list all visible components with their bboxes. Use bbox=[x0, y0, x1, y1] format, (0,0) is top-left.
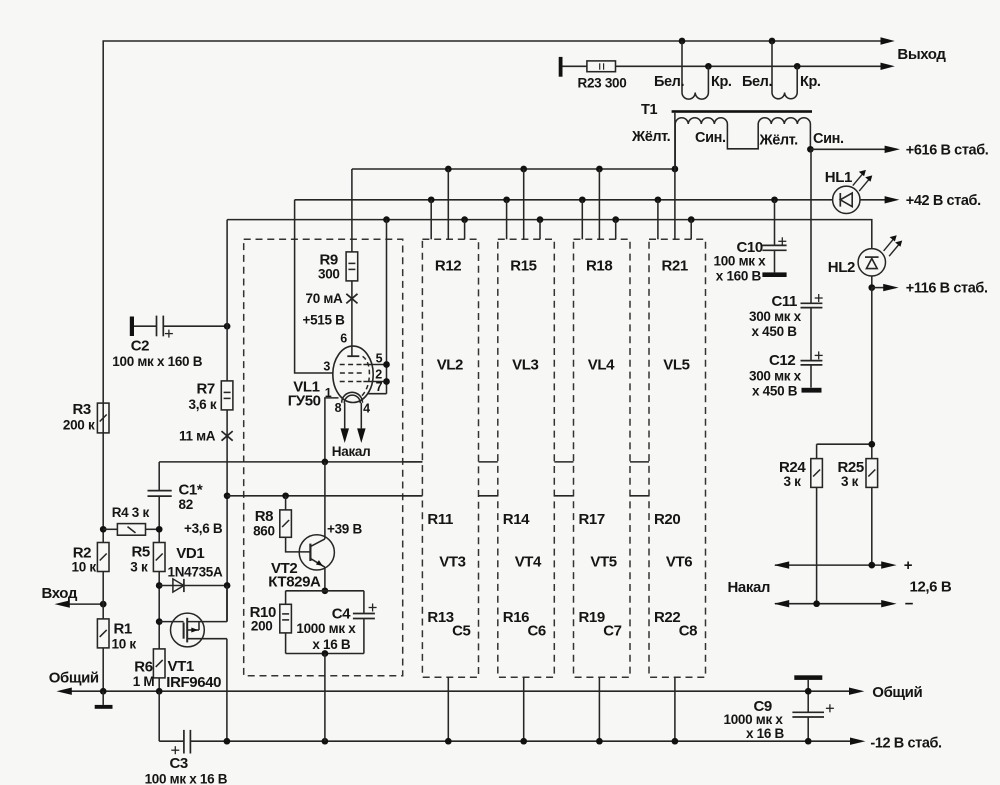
svg-text:C1*: C1* bbox=[179, 482, 203, 499]
svg-text:R19: R19 bbox=[579, 609, 605, 626]
arrow filament plus right bbox=[881, 561, 896, 568]
svg-text:3,6 к: 3,6 к bbox=[189, 397, 217, 412]
wire R24 R25 top connector bbox=[817, 444, 872, 458]
node minus12 col3 bbox=[520, 738, 527, 745]
svg-text:70 мА: 70 мА bbox=[306, 291, 344, 306]
wire col3 bottom drop bbox=[523, 677, 525, 741]
wire heater line module1 bbox=[159, 461, 422, 463]
arrow +42 bbox=[885, 196, 900, 203]
svg-text:R4 3 к: R4 3 к bbox=[112, 505, 150, 520]
tube VL1 envelope bbox=[333, 346, 373, 402]
node line C col3 bbox=[537, 216, 544, 223]
wire heater stub gap4 bbox=[630, 461, 649, 463]
wire R4 line bbox=[103, 528, 159, 530]
svg-text:+515 В: +515 В bbox=[303, 312, 346, 327]
svg-text:R3: R3 bbox=[73, 401, 91, 418]
capacitor C11 bbox=[801, 149, 823, 360]
svg-text:Общий: Общий bbox=[872, 684, 922, 701]
wire line B +42 bus bbox=[295, 199, 885, 201]
node line A col2 bbox=[445, 166, 452, 173]
svg-text:R7: R7 bbox=[197, 381, 215, 398]
svg-text:x 160 В: x 160 В bbox=[716, 268, 762, 283]
wire R23 line bbox=[563, 65, 882, 67]
C10 bottom bar bbox=[762, 272, 786, 277]
svg-text:R17: R17 bbox=[579, 511, 605, 528]
svg-text:C7: C7 bbox=[603, 623, 621, 640]
node line C col2 bbox=[461, 216, 468, 223]
svg-text:Кр.: Кр. bbox=[800, 74, 821, 90]
C10 plus sign bbox=[778, 237, 786, 245]
wire top output bus bbox=[103, 41, 881, 433]
wire col3 drop B bbox=[506, 200, 508, 240]
node line C pin5 bbox=[383, 216, 390, 223]
dashed module box 3 bbox=[498, 239, 555, 677]
svg-text:КТ829А: КТ829А bbox=[268, 573, 321, 590]
svg-text:x 16 В: x 16 В bbox=[312, 637, 351, 652]
svg-text:VT3: VT3 bbox=[439, 554, 465, 571]
svg-text:R14: R14 bbox=[503, 511, 530, 528]
node pin5 bbox=[383, 361, 390, 368]
svg-text:Жёлт.: Жёлт. bbox=[631, 129, 671, 145]
resistor R7 bbox=[221, 381, 233, 410]
capacitor C9 bbox=[792, 675, 824, 741]
node R4 left bbox=[100, 526, 107, 533]
node line B C10 bbox=[771, 196, 778, 203]
svg-text:Накал: Накал bbox=[332, 444, 371, 459]
svg-text:1000 мк x: 1000 мк x bbox=[724, 712, 784, 727]
svg-text:6: 6 bbox=[340, 332, 347, 346]
VL1 beam plate dashed arc bbox=[361, 356, 369, 396]
node +116 bbox=[868, 284, 875, 291]
arrow Общий right bbox=[849, 688, 864, 695]
capacitor C4 bbox=[353, 591, 375, 654]
node line B col5 bbox=[655, 196, 662, 203]
node R1 common bbox=[100, 688, 107, 695]
dashed module box 5 bbox=[649, 239, 706, 677]
svg-text:+39 В: +39 В bbox=[327, 521, 362, 536]
svg-text:C2: C2 bbox=[131, 338, 149, 355]
wire Вход stub bbox=[67, 603, 103, 605]
svg-text:VL4: VL4 bbox=[588, 357, 615, 374]
wire R10 C4 loop bottom bbox=[286, 653, 364, 655]
node top wire sec2 bbox=[769, 38, 776, 45]
wire bias stub gap1 bbox=[403, 495, 423, 497]
svg-text:VT6: VT6 bbox=[666, 554, 692, 571]
node bias R8 bbox=[282, 492, 289, 499]
node VD1 left bbox=[156, 582, 163, 589]
node R4 right bbox=[156, 526, 163, 533]
transformer T1 core bbox=[672, 110, 812, 113]
svg-text:HL2: HL2 bbox=[828, 259, 855, 276]
C3 plus sign bbox=[171, 746, 179, 754]
node C2 bbox=[224, 323, 231, 330]
svg-text:x 16 В: x 16 В bbox=[746, 726, 785, 741]
C12 bottom bar bbox=[802, 388, 822, 393]
svg-text:Жёлт.: Жёлт. bbox=[759, 133, 799, 149]
wire R7 down to bias node bbox=[226, 410, 228, 622]
node filament plus R25 bbox=[868, 562, 875, 569]
VL1 heater arc inner bbox=[344, 395, 360, 403]
svg-text:100 мк x: 100 мк x bbox=[714, 253, 767, 268]
svg-text:Т1: Т1 bbox=[641, 102, 657, 118]
svg-text:Бел.: Бел. bbox=[742, 74, 772, 90]
wire rail R2 to R1 bbox=[102, 572, 104, 619]
svg-text:-12 В стаб.: -12 В стаб. bbox=[870, 735, 942, 751]
C12 plus sign bbox=[815, 351, 823, 359]
wire R6 to common bbox=[158, 678, 160, 691]
svg-text:R16: R16 bbox=[503, 609, 529, 626]
wire heater stub gap3 bbox=[554, 461, 573, 463]
resistor R25 bbox=[866, 459, 878, 488]
wire col4 drop C bbox=[615, 220, 617, 240]
dashed module box 2 bbox=[422, 239, 478, 677]
arrow +116 bbox=[872, 287, 884, 289]
svg-text:10 к: 10 к bbox=[112, 637, 137, 652]
svg-text:VD1: VD1 bbox=[176, 545, 204, 562]
svg-text:R1: R1 bbox=[114, 621, 132, 638]
node minus12 module1 bbox=[322, 738, 329, 745]
svg-text:R20: R20 bbox=[654, 511, 680, 528]
svg-text:3 к: 3 к bbox=[784, 474, 802, 489]
wire R25 down bbox=[871, 487, 873, 565]
svg-text:10 к: 10 к bbox=[72, 560, 97, 575]
capacitor C10 bbox=[762, 200, 786, 273]
wire R10 C4 loop top bbox=[286, 590, 364, 592]
transistor VT2 KT829A bbox=[299, 535, 334, 570]
svg-text:VL5: VL5 bbox=[663, 357, 689, 374]
node line B col3 bbox=[503, 196, 510, 203]
wire +616 line bbox=[810, 148, 885, 150]
wire filament minus line bbox=[775, 603, 882, 605]
svg-text:R23 300: R23 300 bbox=[578, 76, 627, 91]
wire col3 drop C bbox=[539, 220, 541, 240]
svg-text:ГУ50: ГУ50 bbox=[288, 393, 321, 410]
svg-text:12,6 В: 12,6 В bbox=[910, 579, 952, 596]
wire line C bus bbox=[227, 220, 872, 249]
svg-text:R11: R11 bbox=[427, 511, 453, 528]
node Вход bbox=[100, 601, 107, 608]
wire col3 drop A bbox=[523, 169, 525, 239]
svg-text:Син.: Син. bbox=[695, 130, 726, 146]
node C9 common bbox=[805, 688, 812, 695]
svg-text:C11: C11 bbox=[772, 293, 798, 310]
wire line A anode bus bbox=[352, 168, 675, 170]
wire HL2 to +116 node bbox=[871, 276, 873, 288]
node line B col4 bbox=[579, 196, 586, 203]
diode VD1 bbox=[159, 579, 227, 592]
svg-text:Выход: Выход bbox=[897, 46, 946, 63]
svg-text:+616 В стаб.: +616 В стаб. bbox=[906, 142, 989, 158]
VL1 grid 2 bbox=[340, 372, 364, 374]
transformer T1 primary winding 1 bbox=[675, 118, 758, 169]
VL1 grid 1 bbox=[340, 364, 364, 366]
wire bias stub gap4 bbox=[630, 495, 649, 497]
svg-text:82: 82 bbox=[179, 497, 193, 512]
svg-text:x 450 В: x 450 В bbox=[752, 384, 798, 399]
node minus12 col2 bbox=[445, 738, 452, 745]
HL1 light arrows bbox=[853, 170, 873, 191]
resistor R9 bbox=[346, 252, 358, 281]
arrow filament plus left bbox=[774, 561, 789, 568]
resistor R1 bbox=[97, 619, 109, 648]
svg-text:300 мк x: 300 мк x bbox=[749, 309, 802, 324]
svg-text:+116 В стаб.: +116 В стаб. bbox=[906, 281, 988, 297]
VL1 heater arc outer bbox=[342, 392, 363, 402]
VL1 anode bbox=[347, 355, 359, 357]
wire R1 to common bbox=[102, 648, 104, 691]
C4 plus sign bbox=[369, 604, 377, 612]
svg-text:R13: R13 bbox=[427, 609, 453, 626]
node +616 bbox=[807, 146, 814, 153]
svg-text:VL3: VL3 bbox=[512, 357, 538, 374]
svg-text:C8: C8 bbox=[679, 623, 697, 640]
wire bias line module1 bbox=[227, 495, 422, 497]
svg-text:R12: R12 bbox=[435, 257, 461, 274]
svg-text:R22: R22 bbox=[654, 609, 680, 626]
wire R9 to anode bbox=[351, 281, 353, 356]
svg-text:100 мк x 16 В: 100 мк x 16 В bbox=[145, 771, 228, 785]
svg-text:Вход: Вход bbox=[42, 585, 78, 602]
wire line C down to R7 bbox=[226, 220, 228, 381]
arrow filament minus right bbox=[881, 600, 896, 607]
wire common to C3 bbox=[158, 691, 160, 741]
wire pin8 heater lead bbox=[344, 403, 346, 429]
dashed module box 4 bbox=[574, 239, 631, 677]
arrow pin8 bbox=[341, 428, 350, 443]
wire VT2 collector up bbox=[324, 462, 326, 539]
svg-text:R5: R5 bbox=[132, 544, 150, 561]
node loop bottom bbox=[322, 650, 329, 657]
wire pin2 bbox=[363, 381, 386, 383]
svg-text:R15: R15 bbox=[510, 257, 536, 274]
wire common bus bbox=[69, 690, 850, 692]
wire bias stub gap3 bbox=[554, 495, 573, 497]
svg-text:C12: C12 bbox=[769, 352, 795, 369]
svg-text:C4: C4 bbox=[332, 605, 351, 622]
arrow output second bbox=[881, 63, 895, 70]
svg-text:R18: R18 bbox=[586, 257, 612, 274]
VT2 emitter arrow bbox=[316, 560, 323, 566]
node minus12 col5 bbox=[672, 738, 679, 745]
LED HL1 bbox=[833, 186, 860, 213]
node C9 minus12 bbox=[805, 738, 812, 745]
svg-text:VT5: VT5 bbox=[590, 554, 616, 571]
HL2 light arrows bbox=[884, 235, 903, 256]
wire R8 to VT2 base bbox=[286, 537, 311, 552]
wire pin3 to line B bbox=[295, 200, 333, 373]
svg-text:100 мк x 160 В: 100 мк x 160 В bbox=[112, 354, 202, 369]
resistor R24 bbox=[811, 459, 823, 488]
wire R9 top from line A bbox=[351, 169, 353, 252]
arrow +616 bbox=[885, 146, 900, 153]
capacitor C12 bbox=[801, 361, 823, 388]
wire R5 to VD1 node bbox=[158, 572, 160, 649]
C11 plus sign bbox=[815, 294, 823, 302]
wire col4 bottom drop bbox=[598, 677, 600, 741]
svg-text:3 к: 3 к bbox=[130, 559, 148, 574]
svg-text:300 мк x: 300 мк x bbox=[749, 368, 802, 383]
svg-text:C5: C5 bbox=[452, 623, 470, 640]
svg-text:+42 В стаб.: +42 В стаб. bbox=[906, 193, 981, 209]
svg-text:VL2: VL2 bbox=[437, 357, 463, 374]
wire col5 bottom drop bbox=[674, 677, 676, 741]
svg-text:1 М: 1 М bbox=[133, 674, 155, 689]
svg-text:3 к: 3 к bbox=[841, 474, 859, 489]
node line C col4 bbox=[612, 216, 619, 223]
svg-text:IRF9640: IRF9640 bbox=[166, 674, 221, 691]
arrow Вход bbox=[55, 600, 70, 607]
svg-text:860: 860 bbox=[253, 523, 275, 538]
VL1 grid 3 bbox=[340, 381, 364, 383]
node VT1 gate bbox=[156, 618, 163, 625]
svg-text:7: 7 bbox=[376, 380, 383, 394]
wire VT2 emitter down bbox=[324, 567, 326, 591]
transformer T1 secondary winding 2 bbox=[772, 41, 797, 99]
resistor R5 bbox=[153, 543, 165, 572]
node line B col2 bbox=[428, 196, 435, 203]
node pin2 bbox=[383, 378, 390, 385]
node minus12 col4 bbox=[596, 738, 603, 745]
wire heater stub gap1 bbox=[403, 461, 423, 463]
node top wire sec1 bbox=[679, 38, 686, 45]
wire col2 drop C bbox=[464, 220, 466, 240]
svg-text:4: 4 bbox=[363, 402, 370, 416]
arrow output top bbox=[881, 37, 895, 44]
arrow pin4 bbox=[357, 428, 366, 443]
svg-text:Бел.: Бел. bbox=[654, 74, 684, 90]
capacitor C2 bbox=[130, 316, 227, 337]
capacitor C1 bbox=[148, 462, 172, 543]
svg-text:+3,6 В: +3,6 В bbox=[184, 521, 223, 536]
svg-text:C6: C6 bbox=[528, 623, 546, 640]
resistor R3 bbox=[97, 403, 109, 433]
wire pin7 bbox=[368, 393, 387, 395]
svg-text:x 450 В: x 450 В bbox=[752, 324, 798, 339]
arrow Общий left bbox=[57, 688, 72, 695]
wire col2 drop A bbox=[447, 169, 449, 239]
terminal bar R23 input bbox=[559, 57, 563, 77]
node R23 line sec2 bbox=[794, 63, 801, 70]
wire col2 drop B bbox=[430, 200, 432, 240]
svg-text:11 мА: 11 мА bbox=[179, 429, 216, 444]
node bias R7 bbox=[224, 492, 231, 499]
node VD1 right bbox=[224, 582, 231, 589]
wire col5 drop C bbox=[690, 220, 692, 240]
svg-text:Син.: Син. bbox=[813, 131, 844, 147]
transformer T1 secondary winding 1 bbox=[682, 41, 708, 99]
wire filament plus line bbox=[775, 564, 882, 566]
wire VT1 source down bbox=[226, 639, 228, 742]
wire pin5 vertical bbox=[386, 220, 388, 394]
wire bias stub gap2 bbox=[479, 495, 498, 497]
node minus12 VT1 bbox=[224, 738, 231, 745]
node R24 R25 top bbox=[868, 441, 875, 448]
svg-text:3: 3 bbox=[323, 360, 330, 374]
C9 plus sign bbox=[826, 704, 834, 712]
svg-text:8: 8 bbox=[335, 401, 342, 415]
node line C col5 bbox=[688, 216, 695, 223]
wire col2 bottom drop bbox=[447, 677, 449, 741]
capacitor C3 bbox=[159, 730, 190, 754]
wire HL2 node down to R24 R25 bbox=[871, 288, 873, 445]
svg-text:200: 200 bbox=[251, 619, 273, 634]
arrow filament minus left bbox=[774, 600, 789, 607]
node line A col3 bbox=[520, 166, 527, 173]
VT1 arrow bbox=[191, 628, 198, 633]
current mark 11 mA bbox=[222, 431, 233, 441]
node filament minus R24 bbox=[813, 600, 820, 607]
transformer T1 primary winding 2 bbox=[758, 118, 810, 150]
svg-text:Накал: Накал bbox=[728, 579, 771, 596]
svg-text:+: + bbox=[904, 557, 913, 574]
wire pin5 bbox=[363, 364, 386, 366]
node R6 common bbox=[156, 688, 163, 695]
svg-text:VT1: VT1 bbox=[168, 658, 194, 675]
ground symbol bbox=[95, 691, 113, 709]
svg-text:VT4: VT4 bbox=[515, 554, 542, 571]
node heater pin1 bbox=[322, 459, 329, 466]
node R10 C4 top bbox=[322, 587, 329, 594]
wire pin1 bbox=[325, 398, 339, 462]
resistor R8 bbox=[280, 496, 292, 538]
arrow -12 bbox=[850, 738, 865, 745]
svg-text:−: − bbox=[905, 596, 914, 613]
wire minus12 bus bbox=[190, 740, 850, 742]
resistor R2 bbox=[97, 543, 109, 572]
svg-text:R21: R21 bbox=[662, 257, 688, 274]
svg-text:300: 300 bbox=[318, 267, 340, 282]
dashed module box 1 bbox=[244, 239, 403, 675]
resistor R6 bbox=[153, 649, 165, 678]
wire col5 drop B bbox=[657, 200, 659, 240]
current mark 70 mA bbox=[346, 294, 357, 304]
svg-text:5: 5 bbox=[376, 352, 383, 366]
wire module1 to minus12 bbox=[324, 654, 326, 742]
wire left rail R3 to R4 node bbox=[102, 433, 104, 543]
svg-text:1: 1 bbox=[325, 386, 332, 400]
wire col4 drop B bbox=[581, 200, 583, 240]
node R23 line sec1 bbox=[705, 63, 712, 70]
wire col5 drop A transformer bbox=[674, 113, 676, 240]
node line A col4 bbox=[596, 166, 603, 173]
node line A col5 bbox=[672, 166, 679, 173]
svg-text:Общий: Общий bbox=[49, 669, 99, 686]
wire R24 down bbox=[816, 487, 818, 603]
LED HL2 bbox=[858, 249, 885, 276]
svg-text:C3: C3 bbox=[170, 755, 188, 772]
svg-text:1N4735A: 1N4735A bbox=[168, 565, 223, 580]
wire VT1 drain vertical bbox=[226, 586, 228, 622]
svg-text:1000 мк x: 1000 мк x bbox=[296, 621, 356, 636]
resistor R23 bbox=[587, 61, 616, 72]
resistor R4 bbox=[117, 524, 145, 536]
wire col4 drop A bbox=[598, 169, 600, 239]
C2 plus sign bbox=[165, 330, 173, 338]
svg-text:Кр.: Кр. bbox=[711, 74, 732, 90]
svg-text:HL1: HL1 bbox=[825, 169, 852, 186]
resistor R10 bbox=[280, 591, 292, 654]
wire pin4 heater lead bbox=[360, 403, 362, 429]
svg-text:200 к: 200 к bbox=[63, 418, 95, 433]
wire heater stub gap2 bbox=[479, 461, 498, 463]
transistor VT1 IRF9640 bbox=[159, 613, 227, 647]
